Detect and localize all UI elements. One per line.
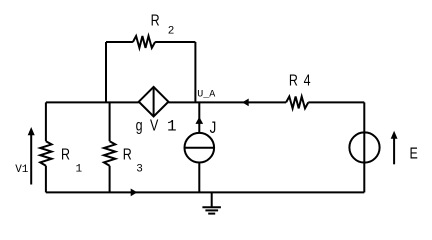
svg-text:U_A: U_A xyxy=(197,90,215,101)
svg-text:2: 2 xyxy=(168,26,175,38)
wire R3 branch top xyxy=(109,102,111,141)
wire right vertical xyxy=(363,102,365,192)
svg-text:V1: V1 xyxy=(15,164,29,176)
svg-text:4: 4 xyxy=(304,72,311,90)
wire R2 right leg xyxy=(194,42,196,102)
svg-text:E: E xyxy=(410,145,418,163)
arrow V1 shaft xyxy=(30,133,32,185)
wire J branch top xyxy=(198,102,200,132)
wire R2 left leg xyxy=(105,42,107,102)
arrow J head (current direction) xyxy=(195,117,203,124)
wire bottom horizontal xyxy=(46,191,364,193)
arrow E shaft xyxy=(393,137,395,165)
svg-text:R: R xyxy=(123,146,132,164)
ground stub xyxy=(211,192,213,207)
current source J bar xyxy=(185,147,215,149)
wire top-left horizontal (node A to diamond left) xyxy=(46,101,139,103)
arrow on main wire pointing left xyxy=(242,99,249,107)
resistor R3 xyxy=(104,141,115,166)
svg-text:1: 1 xyxy=(167,118,177,136)
svg-text:1: 1 xyxy=(76,163,83,175)
voltage source E circle xyxy=(349,132,379,162)
arrow E head xyxy=(391,131,398,139)
ground bar 1 xyxy=(202,206,221,208)
svg-text:R: R xyxy=(289,72,298,90)
wire R3 branch bottom xyxy=(109,166,111,193)
controlled source gV1 inner bar xyxy=(153,87,155,117)
ground bar 2 xyxy=(205,209,218,211)
ground bar 3 xyxy=(208,213,215,215)
svg-text:3: 3 xyxy=(136,163,143,175)
arrow on bottom wire pointing right xyxy=(131,189,138,197)
svg-text:g: g xyxy=(136,117,143,135)
wire top horizontal right of R2 xyxy=(155,41,195,43)
svg-text:R: R xyxy=(151,12,160,30)
resistor R4 xyxy=(286,97,308,109)
current source J circle xyxy=(185,133,215,163)
resistor R1 xyxy=(40,141,51,166)
resistor R2 xyxy=(133,36,155,48)
svg-text:R: R xyxy=(61,146,70,164)
wire main horizontal right of diamond to R4 xyxy=(168,101,286,103)
arrow V1 head xyxy=(28,127,35,135)
wire R4 right to top-right corner xyxy=(308,101,364,103)
controlled source U1 gV1 diamond xyxy=(139,87,169,117)
wire top horizontal left of R2 xyxy=(106,41,133,43)
wire J branch bottom xyxy=(198,163,200,193)
svg-text:J: J xyxy=(210,119,217,138)
wire left vertical upper (R1 branch top) xyxy=(45,102,47,141)
wire left vertical lower (R1 branch bottom) xyxy=(45,166,47,193)
svg-text:V: V xyxy=(150,117,159,135)
